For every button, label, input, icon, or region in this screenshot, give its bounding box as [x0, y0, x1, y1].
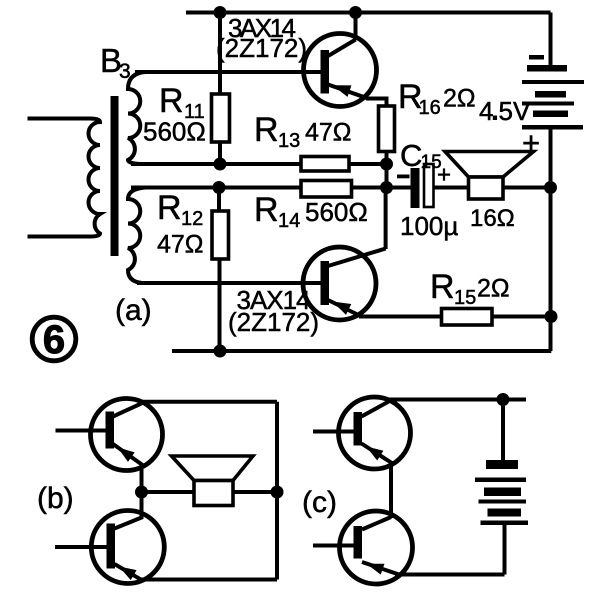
svg-text:R: R — [430, 268, 455, 306]
node speaker-right rail — [544, 181, 557, 194]
wire right rail below battery — [549, 129, 553, 352]
wire bottom rail — [172, 349, 551, 353]
resistor R13 — [301, 157, 349, 172]
svg-text:(b): (b) — [37, 482, 74, 515]
svg-text:+: + — [522, 125, 540, 160]
svg-text:47Ω: 47Ω — [305, 119, 352, 147]
wire Q2 emitter through R15 row — [359, 315, 443, 319]
wire battery top lead — [549, 13, 553, 67]
wire Q2 collector to output node — [384, 188, 388, 250]
wire (c) bottom — [395, 573, 505, 577]
svg-text:16: 16 — [419, 97, 441, 119]
battery (c) — [475, 460, 528, 525]
svg-text:(a): (a) — [115, 294, 152, 327]
transistor Q4 (b) bottom — [91, 491, 164, 584]
wire R15 to right rail — [490, 315, 551, 319]
wire Q1 emitter to R16 top — [366, 99, 387, 108]
wire line from R11 bottom through R13 to R16 bottom — [131, 162, 387, 166]
node (b) emitter-collector-speaker — [135, 486, 148, 499]
svg-text:100µ: 100µ — [400, 211, 458, 241]
node R11-R13 — [214, 158, 227, 171]
wire Q1 collector to top rail — [354, 13, 358, 41]
speaker (b) body — [194, 481, 233, 506]
wire top supply rail — [186, 11, 551, 15]
wire C15 to speaker to right rail — [431, 186, 551, 190]
speaker LS 16ohm body — [469, 177, 504, 199]
resistor R15 — [442, 309, 493, 326]
svg-text:6: 6 — [43, 318, 65, 362]
transformer B3 secondary winding top — [128, 72, 145, 164]
wire (b) right side — [275, 402, 279, 580]
svg-text:R: R — [254, 191, 279, 229]
wire (b) bottom — [139, 578, 277, 582]
resistor R16 — [379, 106, 395, 152]
node rail-Q1 collector — [349, 6, 362, 19]
svg-text:4: 4 — [479, 96, 493, 126]
wire R12 bottom to bottom rail — [218, 258, 222, 351]
wire R16 bottom to output node — [385, 151, 389, 188]
capacitor C15 negative plate — [411, 168, 420, 208]
transformer B3 primary winding — [28, 119, 101, 237]
svg-text:560Ω: 560Ω — [143, 117, 206, 147]
svg-text:(2Z172): (2Z172) — [228, 307, 319, 337]
label C15 minus sign — [397, 175, 410, 179]
svg-text:15: 15 — [454, 287, 476, 309]
wire Q4 base lead — [55, 545, 109, 549]
svg-text:+: + — [437, 162, 451, 189]
node (b) speaker-right — [271, 486, 284, 499]
wire R11 bottom to node — [218, 141, 222, 164]
wire rail to R11 top (crosses base line) — [218, 13, 222, 96]
node R12-bottom rail — [214, 345, 227, 358]
transistor Q6 (c) bottom — [340, 511, 413, 584]
resistor R14 — [301, 181, 352, 198]
wire Q5 emitter to Q6 collector — [389, 461, 393, 518]
wire Q5 base lead — [313, 430, 355, 434]
wire battery (c) top lead — [501, 400, 505, 462]
svg-text:R: R — [157, 189, 182, 227]
transformer B3 core — [111, 96, 119, 256]
label battery minus — [529, 55, 544, 60]
svg-text:13: 13 — [278, 130, 300, 152]
transformer B3 secondary winding bottom — [128, 188, 145, 284]
wire line from R12 top through R14 to C15 — [131, 186, 412, 190]
svg-text:C: C — [400, 138, 422, 173]
transistor Q1 3AX14 top — [304, 34, 377, 107]
wire mid node to speaker — [142, 490, 278, 494]
wire (b) top — [142, 400, 277, 404]
node R13-R16 — [380, 158, 393, 171]
svg-text:14: 14 — [278, 210, 300, 232]
svg-text:(2Z172): (2Z172) — [216, 33, 307, 63]
svg-text:3: 3 — [119, 60, 131, 83]
wire Q3 base lead — [56, 429, 110, 433]
resistor R12 — [212, 211, 229, 259]
speaker (b) horn — [172, 456, 254, 481]
svg-text:5V: 5V — [499, 96, 531, 126]
svg-text:47Ω: 47Ω — [157, 231, 204, 259]
battery B 4.5V — [522, 65, 584, 130]
node (c) top rail-battery — [497, 393, 510, 406]
wire Q6 base lead — [313, 544, 355, 548]
svg-text:12: 12 — [181, 208, 203, 230]
transistor Q2 3AX14 bottom — [303, 247, 386, 320]
wire battery (c) bottom lead — [503, 525, 507, 575]
svg-text:2Ω: 2Ω — [477, 275, 510, 303]
svg-text:560Ω: 560Ω — [305, 197, 368, 227]
node R15-right rail — [545, 310, 558, 323]
svg-text:(c): (c) — [302, 486, 337, 519]
wire transformer secondary to Q2 base — [137, 281, 322, 285]
node R12-R14 — [213, 181, 226, 194]
node rail-R11 — [214, 6, 227, 19]
wire node to R12 top — [217, 188, 221, 213]
wire transformer secondary to Q1 base — [135, 70, 322, 74]
svg-text:2Ω: 2Ω — [443, 85, 476, 113]
resistor R11 — [212, 94, 230, 142]
svg-text:16Ω: 16Ω — [470, 205, 515, 232]
svg-text:R: R — [159, 82, 184, 120]
speaker LS 16ohm horn — [445, 152, 534, 178]
node R14-C15 output — [380, 181, 393, 194]
svg-text:R: R — [254, 111, 279, 149]
transistor Q5 (c) top — [339, 397, 411, 469]
capacitor C15 positive plate — [424, 164, 434, 207]
figure number 6 badge — [32, 317, 76, 362]
wire Q3 emitter to mid node — [140, 463, 144, 492]
transistor Q3 (b) top — [91, 399, 163, 471]
wire (c) top — [388, 398, 526, 402]
